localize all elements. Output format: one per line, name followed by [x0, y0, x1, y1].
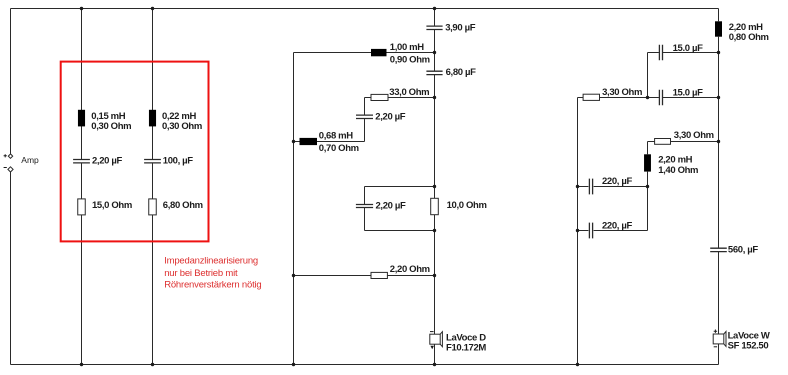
svg-text:560, µF: 560, µF [728, 244, 759, 255]
svg-text:15.0 µF: 15.0 µF [673, 87, 704, 98]
resistor R 3.30 Ohm upper [583, 94, 599, 100]
wire top rail [11, 8, 719, 10]
svg-text:2,20 µF: 2,20 µF [375, 112, 406, 123]
wire row 1.00mH [294, 52, 435, 54]
capacitor C 15.0uF lower [659, 90, 662, 106]
wire cap branch mid [364, 98, 366, 142]
capacitor C 100uF branch2 [144, 160, 161, 163]
junction line B mid r2 [433, 96, 436, 99]
junction top rail b1 [80, 7, 83, 10]
junction line C r5 [576, 229, 579, 232]
wire row 2.20ohm [294, 275, 435, 277]
capacitor C 220uF lower [589, 223, 592, 239]
amp minus sign [4, 167, 7, 169]
wire line B mid [434, 9, 436, 365]
svg-text:3,90 µF: 3,90 µF [445, 22, 476, 33]
wire row 220uF upper [578, 186, 648, 188]
wire inductor col [647, 142, 649, 187]
resistor R 15.0 Ohm branch1 [78, 199, 86, 215]
wire RC loop bottom [365, 230, 435, 232]
wire branch1 [81, 9, 83, 365]
svg-text:15,0 Ohm: 15,0 Ohm [92, 200, 132, 211]
junction bottom rail b2 [151, 363, 154, 366]
inductor L 0.15mH branch1 [78, 110, 85, 127]
wire line C [577, 98, 579, 365]
svg-text:0,68 mH: 0,68 mH [319, 130, 353, 141]
junction line B right r2 [717, 96, 720, 99]
junction line C r4 [576, 185, 579, 188]
wire node col upper [647, 53, 649, 98]
speaker D LaVoce D symbol [430, 332, 443, 350]
wire bottom rail [11, 364, 719, 366]
junction line B right r1 [717, 51, 720, 54]
junction bottom rail C [576, 363, 579, 366]
wire amp left lower [10, 172, 12, 365]
capacitor C 2.20uF branch1 [73, 160, 90, 163]
svg-text:1,40 Ohm: 1,40 Ohm [658, 165, 698, 176]
svg-text:3,30 Ohm: 3,30 Ohm [602, 87, 642, 98]
junction top rail b2 [151, 7, 154, 10]
capacitor C 560uF [710, 248, 727, 251]
svg-text:0,90 Ohm: 0,90 Ohm [390, 54, 430, 65]
inductor L 0.68mH [300, 138, 318, 145]
resistor R 10.0 Ohm [431, 198, 439, 214]
junction line B mid r6 [433, 274, 436, 277]
amp plus sign [4, 154, 7, 157]
svg-text:1,00 mH: 1,00 mH [390, 42, 424, 53]
svg-text:0,30 Ohm: 0,30 Ohm [162, 121, 202, 132]
junction line B mid r1 [433, 51, 436, 54]
wire line A [293, 53, 295, 365]
svg-text:2,20 µF: 2,20 µF [92, 155, 123, 166]
capacitor C 15.0uF upper [659, 45, 662, 61]
svg-text:6,80 µF: 6,80 µF [446, 67, 477, 78]
svg-text:2,20 Ohm: 2,20 Ohm [390, 264, 430, 275]
svg-text:220, µF: 220, µF [602, 176, 633, 187]
inductor L 1.00mH [371, 49, 387, 56]
speaker W LaVoce W symbol [713, 330, 726, 347]
svg-text:6,80 Ohm: 6,80 Ohm [163, 200, 203, 211]
resistor R 3.30 Ohm lower [655, 139, 671, 145]
capacitor C 220uF upper [589, 179, 592, 195]
wire RC loop left [364, 187, 366, 231]
svg-text:F10.172M: F10.172M [446, 343, 486, 354]
svg-text:3,30 Ohm: 3,30 Ohm [674, 130, 714, 141]
capacitor C 2.20uF mid [356, 115, 373, 118]
wire amp left upper [10, 9, 12, 154]
svg-text:2,20 µF: 2,20 µF [376, 200, 407, 211]
wire row 220uF lower [578, 230, 648, 232]
resistor R 2.20 Ohm [371, 272, 387, 278]
wire row 3.30ohm lower [648, 141, 719, 143]
amp terminal plus diamond [8, 154, 12, 158]
svg-text:0,70 Ohm: 0,70 Ohm [319, 143, 359, 154]
svg-text:Impedanzlinearisierung: Impedanzlinearisierung [164, 256, 258, 267]
inductor L 0.22mH branch2 [149, 110, 156, 127]
inductor L 2.20mH top right [715, 21, 722, 36]
svg-text:Röhrenverstärkern nötig: Röhrenverstärkern nötig [164, 279, 261, 290]
wire line B right [718, 9, 720, 365]
svg-text:0,80 Ohm: 0,80 Ohm [729, 32, 769, 43]
junction bottom rail A [292, 363, 295, 366]
junction line B right r3 [717, 140, 720, 143]
wire row 15uF upper [648, 52, 719, 54]
capacitor C 3.90uF [426, 26, 442, 29]
svg-text:nur bei Betrieb mit: nur bei Betrieb mit [164, 268, 238, 279]
svg-text:33,0 Ohm: 33,0 Ohm [389, 87, 429, 98]
wire row 15uF lower [578, 97, 719, 99]
wire RC loop top [365, 186, 435, 188]
junction bottom rail b1 [80, 363, 83, 366]
svg-text:Amp: Amp [21, 155, 39, 165]
resistor R 33.0 Ohm [371, 94, 388, 100]
wire row 33ohm [365, 97, 435, 99]
junction line B mid r5 [433, 229, 436, 232]
resistor R 6.80 Ohm branch2 [149, 199, 157, 215]
junction node col r2 [646, 96, 649, 99]
junction line B mid r4 [433, 185, 436, 188]
junction line A 0.68mH [292, 140, 295, 143]
svg-text:220, µF: 220, µF [602, 220, 633, 231]
svg-text:0,30 Ohm: 0,30 Ohm [91, 121, 131, 132]
junction bottom rail mid [433, 363, 436, 366]
svg-text:SF 152.50: SF 152.50 [728, 341, 769, 352]
amp terminal minus diamond [8, 167, 13, 172]
svg-text:100, µF: 100, µF [163, 155, 194, 166]
wire branch2 [152, 9, 154, 365]
wire row 0.68mH [294, 141, 365, 143]
junction top rail mid [433, 7, 436, 10]
junction node col r4 [646, 185, 649, 188]
wire node col lower [647, 187, 649, 231]
junction line A 2.20ohm [292, 274, 295, 277]
inductor L 2.20mH mid right [644, 154, 651, 171]
capacitor C 6.80uF [426, 71, 442, 74]
red box impedance linearization [61, 62, 209, 242]
svg-text:10,0 Ohm: 10,0 Ohm [447, 200, 487, 211]
capacitor C 2.20uF RC loop [356, 205, 373, 208]
svg-text:15.0 µF: 15.0 µF [673, 43, 704, 54]
